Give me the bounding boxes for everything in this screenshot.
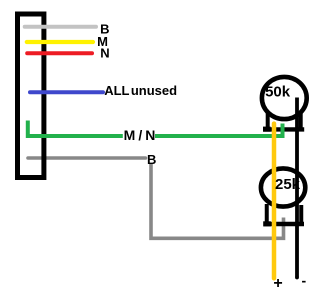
svg-text:ALL unused: ALL unused (104, 83, 177, 98)
svg-text:+: + (273, 275, 282, 292)
svg-text:-: - (301, 273, 306, 289)
svg-text:50k: 50k (265, 84, 291, 101)
svg-text:M/N: M/N (124, 127, 159, 143)
svg-text:B: B (147, 152, 156, 167)
svg-text:25k: 25k (275, 176, 301, 193)
svg-text:N: N (100, 46, 109, 61)
